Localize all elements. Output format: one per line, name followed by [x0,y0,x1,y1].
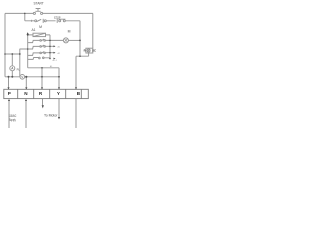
svg-text:R: R [84,48,86,52]
svg-text:V: V [21,75,23,79]
svg-text:PL: PL [17,67,21,71]
svg-text:A1: A1 [31,28,35,32]
svg-text:Y: Y [57,91,60,96]
svg-text:STOP: STOP [54,16,61,20]
svg-text:Supply: Supply [9,118,16,122]
svg-text:P: P [8,91,11,96]
svg-text:M: M [39,25,42,29]
svg-text:SC: SC [92,48,96,52]
svg-text:START: START [34,1,45,5]
svg-text:A1-1: A1-1 [52,59,57,62]
svg-text:To Motor: To Motor [44,114,58,118]
svg-text:M: M [68,30,71,34]
